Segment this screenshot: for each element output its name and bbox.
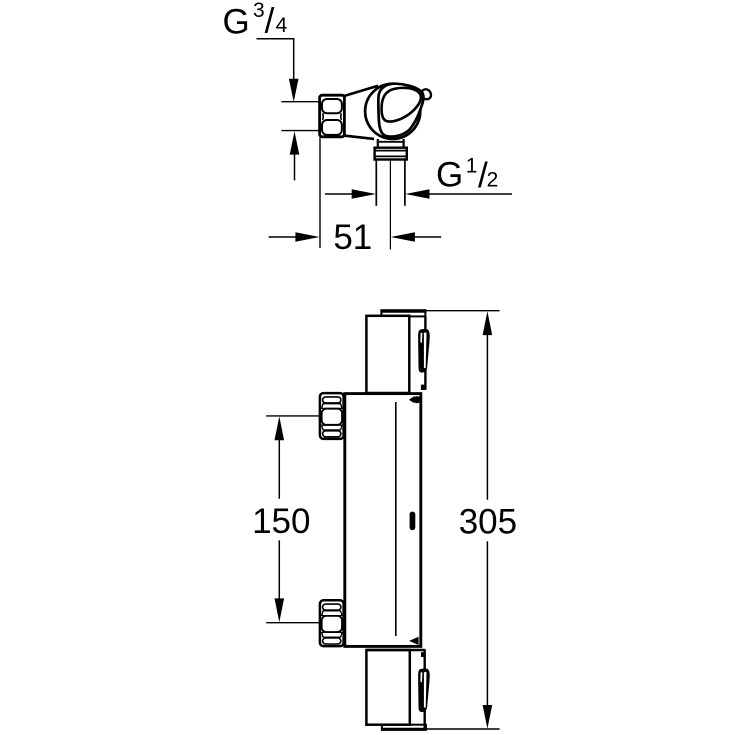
arrow up to nut bottom plane — [290, 131, 300, 154]
305 extension line top — [426, 310, 500, 312]
svg-text:150: 150 — [252, 502, 310, 541]
label G 3/4 — [223, 0, 288, 42]
bottom handle lever — [418, 668, 430, 712]
150 dimension line and arrows — [275, 416, 285, 440]
top handle side face right edge — [424, 316, 426, 389]
svg-text:4: 4 — [276, 14, 288, 37]
mixer body — [345, 394, 421, 647]
bottom handle body — [366, 650, 409, 725]
svg-text:G: G — [223, 3, 250, 42]
pipe center line — [389, 160, 391, 250]
svg-text:G: G — [436, 156, 463, 195]
150 extension line top (upper inlet axis) — [266, 415, 320, 417]
nub at handle tip — [419, 87, 433, 101]
svg-text:1: 1 — [466, 154, 478, 177]
305 dimension line and arrows — [483, 311, 493, 335]
G 1/2 dimension arrows — [325, 193, 359, 195]
150 extension line bottom (lower inlet axis) — [266, 622, 320, 624]
valve body trapezoid — [344, 86, 400, 139]
extension line nut bottom — [281, 130, 319, 132]
top handle cap — [381, 310, 425, 316]
top handle corner step — [421, 385, 426, 390]
valve body circle — [365, 84, 420, 139]
svg-text:305: 305 — [459, 503, 517, 542]
305 extension line bottom — [420, 728, 500, 730]
neck below valve body — [377, 139, 379, 148]
svg-text:2: 2 — [487, 169, 499, 192]
bottom stop marker — [409, 637, 419, 645]
svg-text:3: 3 — [253, 0, 265, 22]
bottom handle cap — [382, 725, 426, 730]
handle knob inner lens — [382, 88, 421, 122]
top handle lever — [418, 329, 430, 373]
svg-text:51: 51 — [333, 218, 372, 257]
51 dimension right tail — [408, 236, 441, 238]
top stop marker — [409, 396, 415, 404]
upper inlet union nut — [320, 393, 344, 439]
51 right arrow — [391, 232, 415, 242]
top handle body — [366, 316, 409, 393]
arrow down to nut top plane — [289, 79, 299, 102]
tail of up arrow — [294, 150, 296, 180]
handle knob (outer comma) — [378, 84, 423, 137]
label G 1/2 — [436, 154, 498, 195]
lower inlet union nut — [320, 600, 344, 646]
ring nut on outlet — [375, 148, 407, 160]
51 left arrow — [295, 232, 319, 242]
51 extension line (nut face) — [319, 138, 321, 248]
extension line nut top — [281, 101, 319, 103]
G 3/4 union nut — [320, 95, 345, 137]
bottom handle corner step — [421, 652, 425, 657]
51 dimension left tail — [269, 236, 303, 238]
bottom handle top edge full width — [366, 649, 424, 651]
outlet pipe — [375, 160, 377, 206]
economy button mark — [410, 512, 416, 530]
leader line from G 3/4 label — [257, 39, 294, 84]
body groove line — [395, 402, 397, 636]
bottom handle side face right edge — [424, 649, 426, 729]
svg-text:/: / — [265, 2, 275, 41]
